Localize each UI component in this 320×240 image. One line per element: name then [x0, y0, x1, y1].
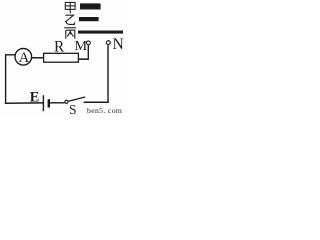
switch pivot circle — [65, 100, 68, 103]
wire right side: N down to bottom corner — [107, 45, 109, 103]
terminal N — [106, 41, 110, 45]
ammeter A — [15, 49, 32, 66]
legend character 丙 — [64, 28, 76, 39]
battery E short plate — [48, 99, 50, 107]
svg-text:N: N — [113, 36, 124, 53]
wire battery to switch — [50, 102, 65, 104]
svg-text:ben5. com: ben5. com — [87, 106, 122, 115]
svg-text:A: A — [19, 50, 30, 66]
legend bar 甲 (thick short wire sample) — [80, 3, 101, 9]
svg-text:M: M — [75, 39, 88, 54]
wire bottom left to battery — [5, 102, 43, 104]
wire switch to right corner — [84, 101, 109, 103]
legend character 乙 — [65, 15, 74, 24]
legend bar 丙 (thin long wire sample) — [78, 31, 123, 34]
wire left vertical — [5, 54, 7, 104]
wire from terminal M down — [87, 45, 89, 59]
resistor box R — [44, 53, 79, 62]
terminal M — [87, 41, 91, 45]
legend bar 乙 (medium short wire sample) — [79, 17, 99, 21]
battery E long plate — [42, 95, 44, 111]
wire jog from resistor box to M drop — [78, 58, 89, 60]
switch lever — [68, 97, 85, 101]
svg-text:E: E — [30, 90, 40, 106]
legend character 甲 — [65, 2, 75, 13]
wire ammeter to resistor box — [31, 57, 44, 59]
wire left of ammeter — [5, 54, 15, 56]
svg-text:S: S — [69, 102, 77, 117]
